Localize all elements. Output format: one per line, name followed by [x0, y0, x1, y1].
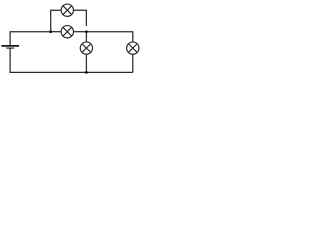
junction node B	[85, 30, 88, 33]
wire lamp L1 right to junction B drop	[74, 10, 87, 26]
junction node A	[49, 30, 52, 33]
lamp L2	[61, 26, 73, 38]
wire lamp L3 bottom to bottom rail junction C	[85, 54, 87, 72]
wire lamp L4 bottom to bottom right corner	[132, 54, 134, 72]
lamp L4	[127, 42, 139, 54]
wire top rail right: junction B to right corner down to lamp L4	[86, 32, 132, 42]
lamp L1	[61, 4, 73, 16]
battery B1 short plate	[6, 48, 14, 49]
lamp L3	[80, 42, 92, 54]
wire junction A to lamp L2	[51, 31, 61, 33]
wire bottom rail: right corner to battery bottom	[10, 48, 133, 72]
wire junction B down to lamp L3	[85, 32, 87, 42]
battery B1 long plate	[1, 45, 19, 47]
wire branch up from junction A to lamp L1	[51, 10, 61, 32]
wire lamp L2 right to junction B	[74, 31, 87, 33]
junction node C	[85, 71, 88, 74]
wire top rail left: battery top to junction A	[10, 32, 51, 46]
